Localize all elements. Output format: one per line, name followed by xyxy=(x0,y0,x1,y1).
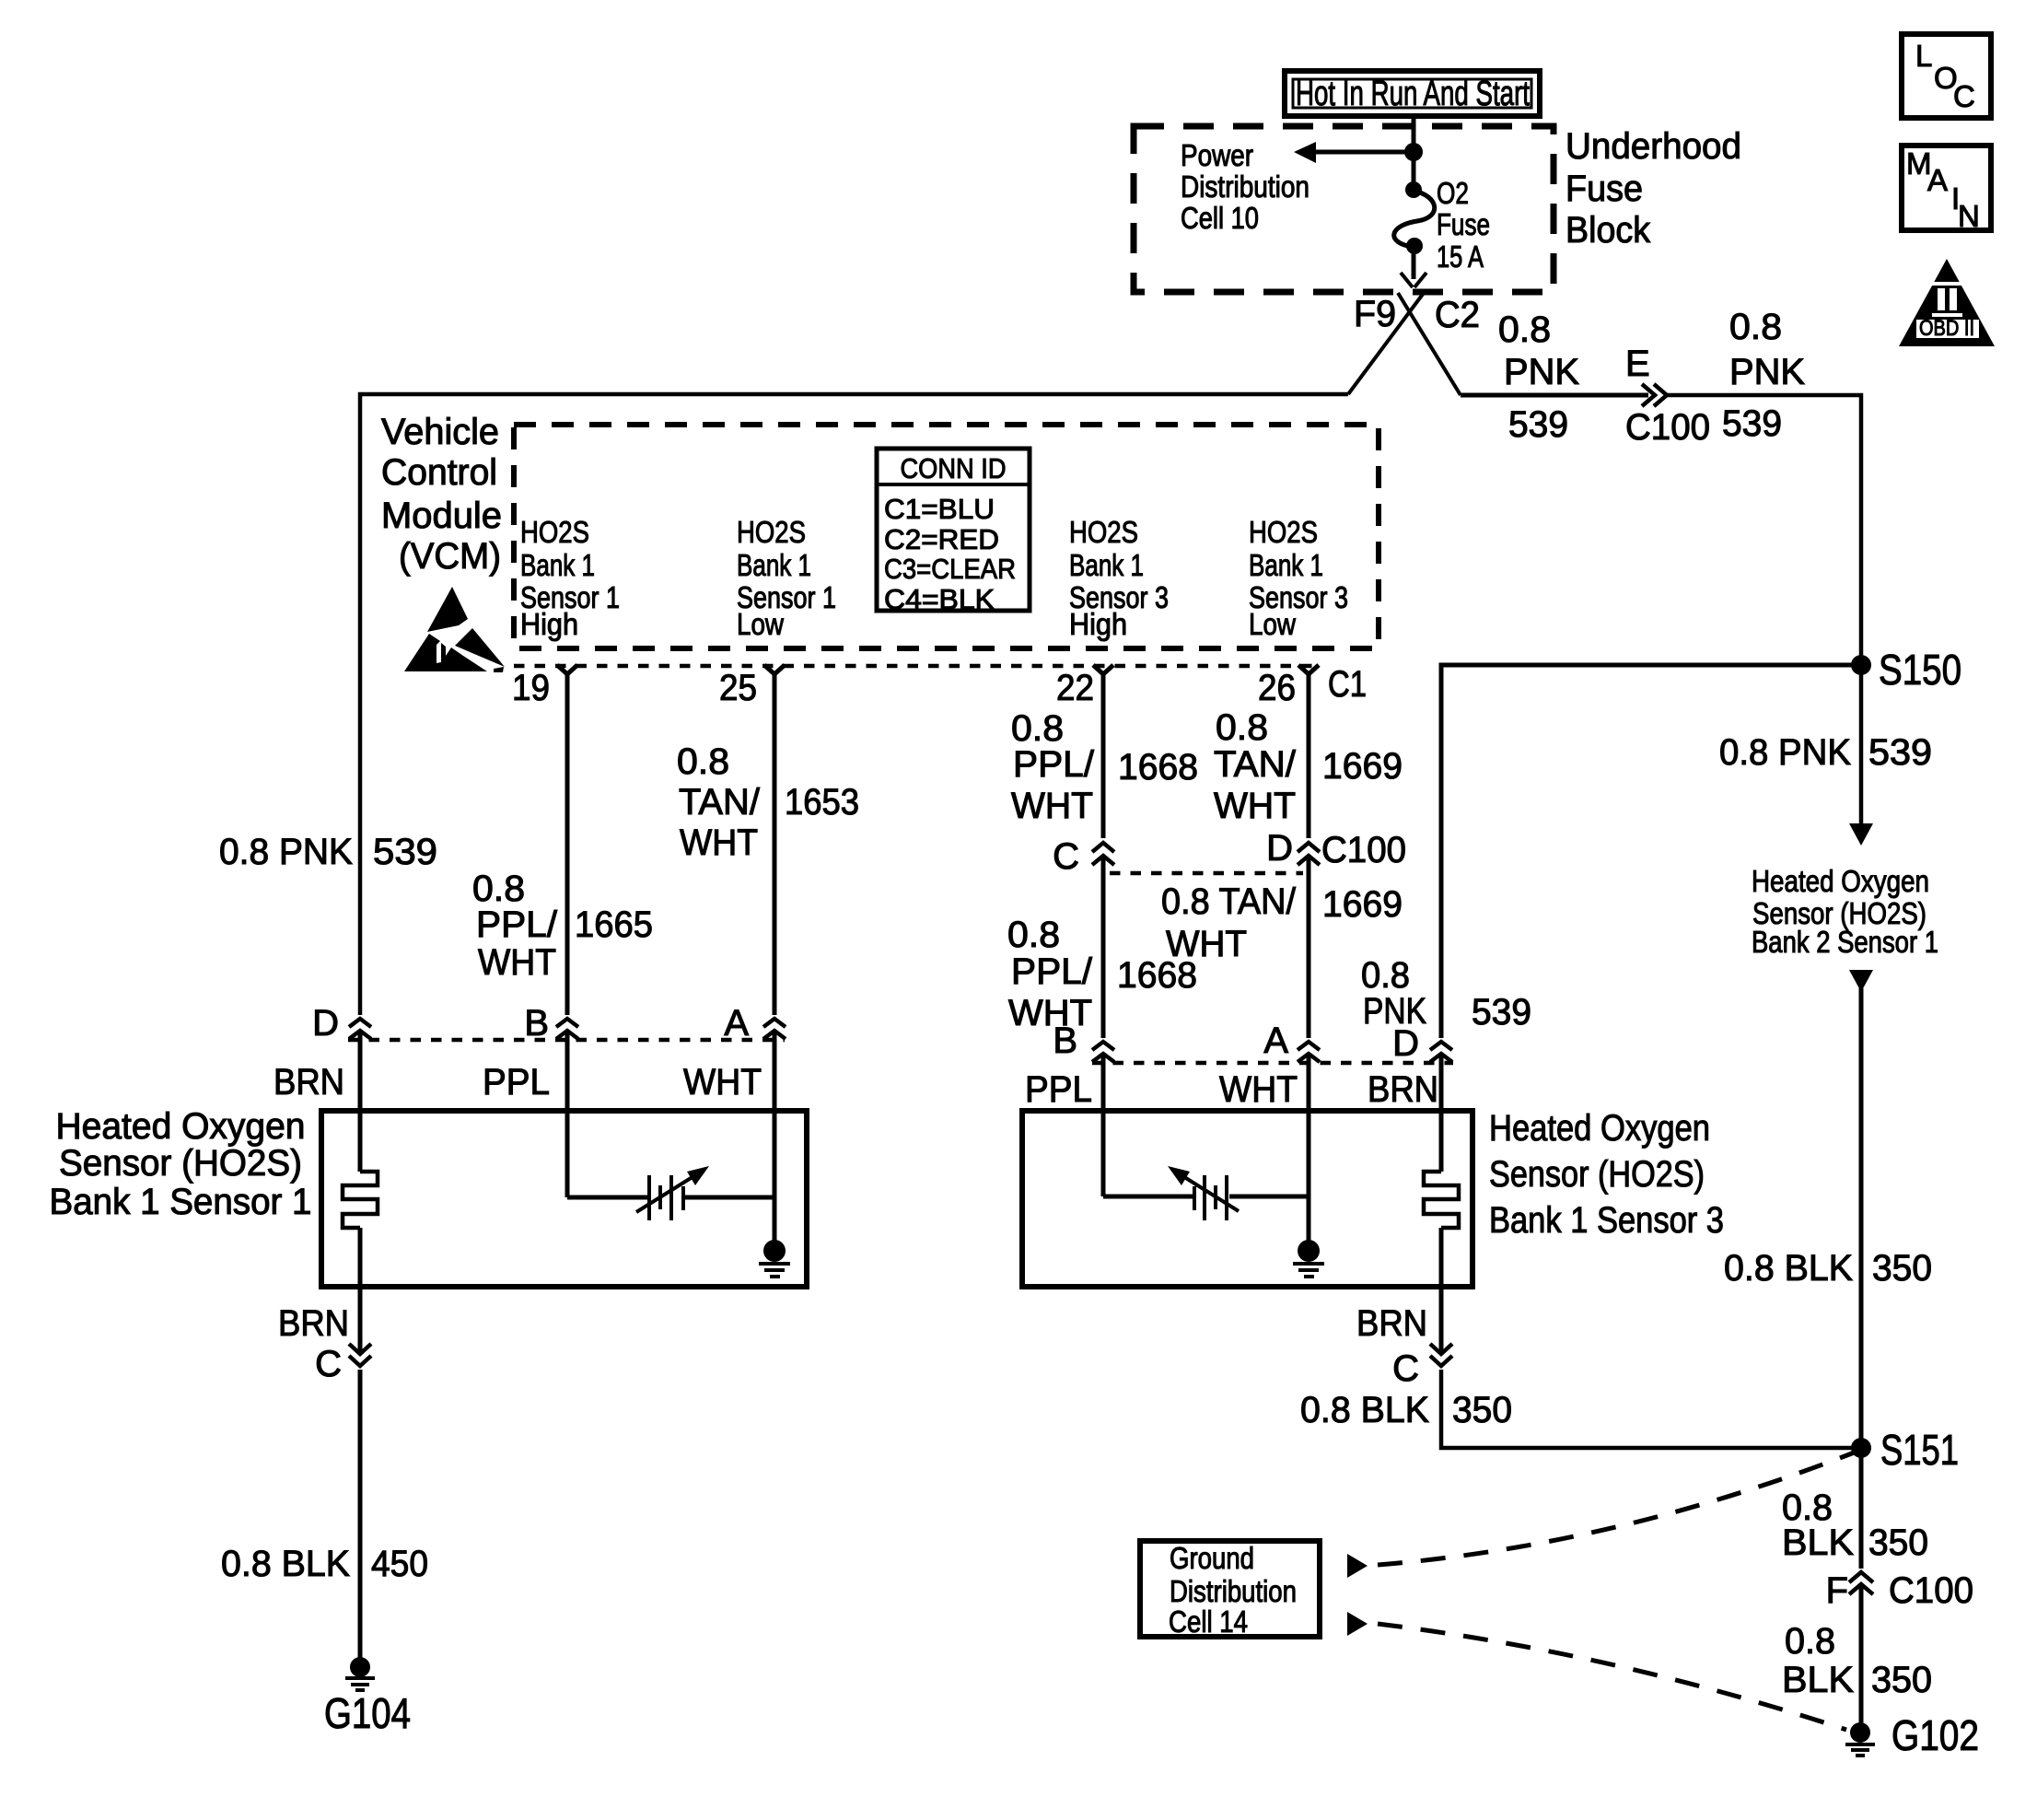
sensor cell bars (left) xyxy=(649,1175,683,1220)
svg-text:Distribution: Distribution xyxy=(1170,1574,1297,1608)
MAIN symbol box xyxy=(1902,146,1991,233)
svg-text:Fuse: Fuse xyxy=(1437,207,1490,241)
svg-text:D: D xyxy=(1392,1023,1419,1064)
svg-text:0.8: 0.8 xyxy=(1007,915,1060,955)
svg-text:L: L xyxy=(1915,39,1932,73)
svg-text:0.8 PNK: 0.8 PNK xyxy=(1719,732,1851,773)
sensor cell wire (right) xyxy=(1103,1195,1193,1199)
svg-text:15 A: 15 A xyxy=(1437,239,1484,274)
arrow out of HO2S Bank 2 Sensor 1 xyxy=(1849,970,1873,992)
svg-text:BLK: BLK xyxy=(1782,1522,1854,1563)
svg-text:539: 539 xyxy=(373,832,437,872)
svg-text:A: A xyxy=(1263,1021,1288,1061)
wire BRN below heater xyxy=(358,1228,363,1352)
ground distribution cell 14 box xyxy=(1140,1541,1320,1639)
wire PPL into right sensor xyxy=(1101,1054,1106,1196)
sensor cell wire (left) xyxy=(567,1196,647,1200)
wire BLK to S151 xyxy=(1441,1370,1861,1448)
svg-text:Bank 1 Sensor 1: Bank 1 Sensor 1 xyxy=(50,1182,312,1222)
wire BRN below heater xyxy=(1439,1228,1444,1352)
arrow to S151 branch xyxy=(1347,1554,1368,1578)
svg-text:0.8: 0.8 xyxy=(677,741,729,782)
connector A (right sensor) xyxy=(1263,1021,1320,1062)
label Heated Oxygen Sensor (HO2S) Bank 1 Sensor 3 xyxy=(1489,1108,1724,1241)
svg-text:C1: C1 xyxy=(1328,664,1367,705)
svg-text:C2: C2 xyxy=(1435,295,1480,335)
connector C (left BRN pigtail) xyxy=(315,1344,371,1384)
svg-text:1668: 1668 xyxy=(1117,955,1197,996)
svg-text:WHT: WHT xyxy=(680,822,758,863)
svg-text:25: 25 xyxy=(719,668,757,708)
svg-text:Cell 10: Cell 10 xyxy=(1181,201,1259,235)
svg-text:TAN/: TAN/ xyxy=(679,782,761,822)
svg-text:0.8: 0.8 xyxy=(1498,309,1551,350)
svg-text:C3=CLEAR: C3=CLEAR xyxy=(884,553,1016,585)
svg-text:BRN: BRN xyxy=(278,1303,349,1344)
svg-text:B: B xyxy=(524,1003,549,1044)
svg-text:C: C xyxy=(1392,1348,1419,1389)
svg-text:PPL/: PPL/ xyxy=(1013,744,1095,785)
svg-text:26: 26 xyxy=(1258,668,1296,708)
arrow to G102 branch xyxy=(1347,1612,1368,1636)
svg-text:Bank 1: Bank 1 xyxy=(1249,548,1323,582)
wire pin22 below C100 xyxy=(1101,856,1106,1038)
svg-text:350: 350 xyxy=(1868,1522,1928,1563)
wire pin26 below C100 xyxy=(1307,856,1311,1038)
label 0.8 TAN/WHT 1669 (below C100) xyxy=(1161,881,1403,964)
label 0.8 BLK 350 (above S151) xyxy=(1724,1248,1932,1289)
svg-text:350: 350 xyxy=(1872,1248,1932,1289)
VCM pin label HO2S Bank 1 Sensor 1 Low xyxy=(737,515,836,641)
ground inside right sensor xyxy=(1293,1240,1324,1277)
svg-text:0.8 BLK: 0.8 BLK xyxy=(1724,1248,1853,1289)
svg-text:C: C xyxy=(1053,836,1079,877)
svg-text:C100: C100 xyxy=(1889,1570,1973,1611)
svg-text:Cell 14: Cell 14 xyxy=(1169,1604,1248,1639)
VCM pin label HO2S Bank 1 Sensor 3 High xyxy=(1069,515,1169,641)
svg-text:Block: Block xyxy=(1566,210,1651,251)
svg-text:PNK: PNK xyxy=(1729,352,1805,392)
wire below fuse with open arrow xyxy=(1401,247,1426,287)
svg-text:C: C xyxy=(1953,79,1975,113)
svg-text:1653: 1653 xyxy=(785,782,859,822)
sensor connector dashed line (right) xyxy=(1092,1061,1453,1066)
OBD II triangle symbol xyxy=(1899,259,1995,346)
svg-text:Bank 1: Bank 1 xyxy=(520,548,595,582)
svg-text:HO2S: HO2S xyxy=(1249,515,1318,549)
pin 19 connector Y xyxy=(512,665,577,708)
svg-text:HO2S: HO2S xyxy=(737,515,806,549)
label 0.8 PNK 539 (BRN riser from S150) xyxy=(1361,955,1531,1032)
wire PPL into left sensor xyxy=(565,1031,570,1197)
svg-text:High: High xyxy=(1069,607,1127,641)
wire pin26 TAN/WHT 1669 xyxy=(1307,674,1311,838)
wire right branch toward C100 xyxy=(1461,393,1648,398)
wire from F to G102 xyxy=(1859,1584,1864,1723)
svg-text:0.8 TAN/: 0.8 TAN/ xyxy=(1161,881,1297,922)
svg-text:Heated Oxygen: Heated Oxygen xyxy=(1752,864,1929,898)
label Underhood Fuse Block xyxy=(1566,126,1741,251)
connector C at C100 pin22 wire xyxy=(1053,836,1114,877)
svg-text:A: A xyxy=(724,1003,749,1044)
svg-text:539: 539 xyxy=(1868,732,1932,773)
pin 22 connector Y xyxy=(1056,665,1113,708)
splice S150 xyxy=(1851,646,1961,694)
svg-text:350: 350 xyxy=(1871,1660,1932,1700)
wire from S150 to right sensor D xyxy=(1441,665,1861,1038)
svg-text:TAN/: TAN/ xyxy=(1214,744,1297,785)
connector B (right sensor) xyxy=(1053,1021,1114,1062)
junction node dot xyxy=(1404,143,1423,161)
wire 0.8 BLK 350 down to S151 xyxy=(1859,988,1864,1569)
connector A (left sensor) xyxy=(724,1003,786,1044)
svg-text:E: E xyxy=(1625,344,1650,384)
label 0.8 PPL/WHT 1668 (above C100) xyxy=(1011,708,1198,826)
label Vehicle Control Module (VCM) xyxy=(381,412,502,577)
svg-text:539: 539 xyxy=(1722,403,1782,444)
heater element (left sensor) xyxy=(343,1172,378,1228)
svg-text:PPL: PPL xyxy=(1025,1069,1092,1110)
svg-text:C1=BLU: C1=BLU xyxy=(884,493,995,525)
svg-text:O2: O2 xyxy=(1437,176,1469,210)
svg-text:OBD II: OBD II xyxy=(1919,316,1974,341)
heater element (right sensor) xyxy=(1424,1172,1459,1228)
svg-text:1665: 1665 xyxy=(575,904,653,945)
svg-text:PPL/: PPL/ xyxy=(1011,951,1093,992)
svg-text:N: N xyxy=(1958,199,1980,233)
svg-text:G104: G104 xyxy=(324,1689,411,1737)
splice S151 xyxy=(1851,1426,1959,1474)
label Heated Oxygen Sensor (HO2S) Bank 1 Sensor 1 xyxy=(50,1106,312,1222)
wire BRN into right sensor xyxy=(1439,1054,1444,1172)
wire pin25 TAN/WHT 1653 xyxy=(773,674,777,1015)
sensor connector dashed line (left) xyxy=(348,1038,785,1043)
svg-text:0.8: 0.8 xyxy=(1361,955,1410,996)
svg-text:WHT: WHT xyxy=(683,1062,762,1102)
svg-text:Heated Oxygen: Heated Oxygen xyxy=(56,1106,306,1147)
svg-text:1669: 1669 xyxy=(1322,746,1403,787)
svg-text:19: 19 xyxy=(512,668,550,708)
svg-text:Bank 1 Sensor 3: Bank 1 Sensor 3 xyxy=(1489,1200,1724,1241)
svg-text:WHT: WHT xyxy=(1214,786,1296,826)
wire from C100 to right main riser xyxy=(1667,395,1861,840)
svg-text:0.8 BLK: 0.8 BLK xyxy=(1300,1390,1429,1430)
svg-text:HO2S: HO2S xyxy=(1069,515,1138,549)
svg-text:1669: 1669 xyxy=(1322,884,1403,925)
Hot In Run And Start box xyxy=(1285,71,1540,116)
connector C (right BRN pigtail) xyxy=(1392,1344,1452,1389)
svg-text:B: B xyxy=(1053,1021,1077,1061)
pin 26 connector Y xyxy=(1258,665,1319,708)
label 0.8 PNK 539 (below S150) xyxy=(1719,732,1932,773)
svg-text:0.8: 0.8 xyxy=(1011,708,1064,749)
svg-text:1668: 1668 xyxy=(1118,747,1198,787)
sensor cell wire to WHT (left) xyxy=(685,1196,774,1200)
pin 25 connector Y xyxy=(719,665,785,708)
label 0.8 TAN/WHT 1653 xyxy=(677,741,859,863)
svg-text:D: D xyxy=(312,1003,339,1044)
label 0.8 PPL/WHT 1665 xyxy=(472,869,653,983)
label 0.8 PNK 539 (right of C100) xyxy=(1722,307,1805,444)
svg-text:D: D xyxy=(1266,828,1293,869)
svg-text:BRN: BRN xyxy=(274,1062,344,1102)
label 0.8 PPL/WHT 1668 (below C100) xyxy=(1007,915,1197,1033)
connector F C100 xyxy=(1826,1570,1973,1611)
svg-text:Low: Low xyxy=(737,607,784,641)
vehicle control module VCM dashed box xyxy=(514,425,1379,648)
underhood fuse block dashed box xyxy=(1134,126,1554,292)
connector E C100 chevrons xyxy=(1642,384,1667,406)
svg-text:WHT: WHT xyxy=(1008,993,1092,1033)
svg-text:(VCM): (VCM) xyxy=(399,536,501,577)
svg-text:22: 22 xyxy=(1056,668,1094,708)
connector B (left sensor) xyxy=(524,1003,578,1044)
wire WHT into right sensor xyxy=(1307,1054,1311,1245)
svg-text:Sensor (HO2S): Sensor (HO2S) xyxy=(59,1143,302,1184)
svg-text:CONN ID: CONN ID xyxy=(901,452,1007,484)
LOC symbol box xyxy=(1902,34,1991,118)
svg-text:Ground: Ground xyxy=(1170,1541,1254,1575)
svg-text:PPL/: PPL/ xyxy=(476,904,558,945)
label 0.8 PNK 539 (left riser) xyxy=(219,832,437,872)
wire BRN into left sensor xyxy=(358,1031,363,1172)
VCM connector face dashed line xyxy=(514,664,1321,669)
wire pin22 PPL/WHT 1668 xyxy=(1101,674,1106,838)
label 0.8 BLK 350 (below S151) xyxy=(1782,1487,1928,1563)
svg-text:Bank 1: Bank 1 xyxy=(1069,548,1144,582)
wire left branch to VCM xyxy=(360,394,1348,1015)
svg-text:S151: S151 xyxy=(1880,1426,1959,1474)
svg-text:Hot In Run And Start: Hot In Run And Start xyxy=(1296,75,1530,113)
svg-text:Fuse: Fuse xyxy=(1566,169,1643,209)
svg-text:C: C xyxy=(315,1344,342,1384)
ESD sensitive device symbol xyxy=(404,587,505,672)
svg-text:C100: C100 xyxy=(1321,830,1406,870)
svg-text:Heated Oxygen: Heated Oxygen xyxy=(1489,1108,1710,1149)
svg-text:Underhood: Underhood xyxy=(1566,126,1741,167)
svg-text:PPL: PPL xyxy=(483,1062,550,1102)
svg-text:BRN: BRN xyxy=(1368,1069,1438,1110)
svg-text:WHT: WHT xyxy=(1011,786,1093,826)
svg-text:F: F xyxy=(1826,1570,1848,1611)
svg-text:Module: Module xyxy=(381,496,502,536)
right sensor box HO2S B1S3 xyxy=(1022,1111,1472,1287)
CONN ID table xyxy=(877,449,1030,615)
label Power Distribution Cell 10 xyxy=(1181,138,1309,235)
svg-text:BRN: BRN xyxy=(1356,1303,1427,1344)
connector D at C100 pin26 wire xyxy=(1266,828,1320,869)
sensor cell bars (right) xyxy=(1194,1175,1227,1220)
svg-text:350: 350 xyxy=(1452,1390,1512,1430)
svg-text:A: A xyxy=(1927,163,1948,197)
svg-text:PNK: PNK xyxy=(1504,352,1579,392)
svg-text:Control: Control xyxy=(381,452,497,493)
svg-text:539: 539 xyxy=(1508,404,1568,445)
label O2 Fuse 15 A xyxy=(1437,176,1490,274)
left sensor box HO2S B1S1 xyxy=(321,1111,807,1287)
svg-text:0.8: 0.8 xyxy=(472,869,525,909)
ground G102 xyxy=(1845,1711,1979,1759)
svg-text:Vehicle: Vehicle xyxy=(381,412,499,452)
svg-text:Low: Low xyxy=(1249,607,1296,641)
wire pin19 PPL/WHT 1665 xyxy=(565,674,570,1015)
wire from Hot box into fuse block xyxy=(1412,114,1416,189)
connector D (left sensor) xyxy=(312,1003,371,1044)
svg-text:WHT: WHT xyxy=(1219,1069,1298,1110)
wire 0.8 BLK 450 to G104 xyxy=(358,1370,363,1659)
ground G104 xyxy=(324,1657,411,1737)
connector D (right sensor) xyxy=(1392,1023,1452,1064)
sensor cell wire to WHT (right) xyxy=(1229,1195,1309,1199)
svg-text:450: 450 xyxy=(371,1544,428,1584)
arrow into HO2S Bank 2 Sensor 1 xyxy=(1849,823,1873,846)
label 0.8 TAN/WHT 1669 (above C100) xyxy=(1214,707,1403,826)
connector C100 dashed interface line xyxy=(1110,871,1303,876)
svg-text:S150: S150 xyxy=(1879,646,1961,694)
label 0.8 BLK 350 (right BRN drop) xyxy=(1300,1390,1512,1430)
svg-text:F9: F9 xyxy=(1354,294,1396,334)
svg-text:0.8: 0.8 xyxy=(1729,307,1782,347)
svg-text:WHT: WHT xyxy=(478,942,556,983)
wire arrow to Power Distribution xyxy=(1294,142,1414,163)
svg-text:Bank 2 Sensor 1: Bank 2 Sensor 1 xyxy=(1752,925,1938,959)
sensor variable arrow (left) xyxy=(636,1166,709,1212)
VCM pin label HO2S Bank 1 Sensor 3 Low xyxy=(1249,515,1348,641)
svg-text:Distribution: Distribution xyxy=(1181,169,1309,204)
svg-text:0.8: 0.8 xyxy=(1785,1621,1835,1662)
VCM pin label HO2S Bank 1 Sensor 1 High xyxy=(520,515,620,641)
svg-text:C100: C100 xyxy=(1625,407,1710,448)
svg-text:C4=BLK: C4=BLK xyxy=(884,583,995,615)
dashed wire to G102 xyxy=(1378,1624,1846,1730)
fuse F9 O2 15A xyxy=(1394,181,1435,254)
svg-text:0.8 BLK: 0.8 BLK xyxy=(221,1544,350,1584)
label Heated Oxygen Sensor (HO2S) Bank 2 Sensor 1 xyxy=(1752,864,1938,959)
svg-text:Power: Power xyxy=(1181,138,1253,172)
label 0.8 BLK 450 xyxy=(221,1544,428,1584)
svg-text:High: High xyxy=(520,607,578,641)
svg-text:G102: G102 xyxy=(1891,1711,1979,1759)
svg-text:Bank 1: Bank 1 xyxy=(737,548,811,582)
svg-text:C2=RED: C2=RED xyxy=(884,523,999,555)
label 0.8 PNK 539 (left of C100) xyxy=(1498,309,1579,445)
svg-text:539: 539 xyxy=(1472,992,1531,1032)
ground inside left sensor xyxy=(759,1240,790,1277)
label 0.8 BLK 350 (above G102) xyxy=(1782,1621,1932,1700)
wire WHT into left sensor xyxy=(773,1031,777,1245)
svg-text:BLK: BLK xyxy=(1782,1660,1854,1700)
svg-text:0.8: 0.8 xyxy=(1216,707,1268,748)
dashed wire to S151 xyxy=(1378,1452,1857,1565)
svg-text:Sensor (HO2S): Sensor (HO2S) xyxy=(1489,1154,1705,1195)
sensor variable arrow (right) xyxy=(1168,1166,1239,1211)
connector C2 splice X below fuse block xyxy=(1348,293,1461,395)
svg-text:HO2S: HO2S xyxy=(520,515,589,549)
svg-text:0.8 PNK: 0.8 PNK xyxy=(219,832,353,872)
